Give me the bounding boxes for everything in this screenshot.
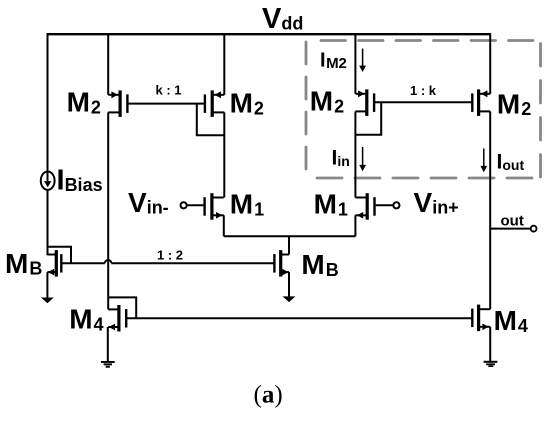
transistor M2 (left pair, right, diode-connected) — [204, 90, 225, 117]
svg-text:M4: M4 — [494, 305, 528, 336]
ground (earth style) under right M4 — [484, 361, 498, 367]
wire: tail joining both M1 sources — [224, 235, 356, 237]
transistor M2 (left pair, left) — [108, 90, 128, 117]
wire: tail down to MB (center) drain — [288, 236, 290, 254]
wire: M4 left source to ground — [107, 327, 109, 362]
wire: M4 left diode loop — [108, 297, 136, 318]
transistor M4 (right) — [471, 305, 490, 332]
annotation arrow Iin — [359, 147, 366, 171]
svg-text:IBias: IBias — [57, 165, 103, 197]
svg-text:M2: M2 — [310, 86, 344, 117]
wire: 1:k gate wire between right-pair gates — [374, 101, 471, 103]
annotation arrow Iout — [480, 149, 487, 173]
wire: M4 right source to ground — [489, 327, 491, 362]
wire: Vdd down to M2 (right pair right) source — [489, 33, 491, 94]
svg-text:1 : k: 1 : k — [410, 83, 437, 98]
transistor MB (center) — [273, 250, 289, 277]
svg-text:M2: M2 — [67, 87, 101, 118]
annotation arrow IM2 — [359, 49, 366, 73]
input terminal Vin- — [181, 202, 204, 208]
wire: M2 left-pair drain down to MB junction and M4 — [107, 112, 109, 309]
wire: M4 gate rail to right M4 — [126, 317, 471, 319]
transistor MB (left, diode-connected) — [47, 250, 62, 277]
svg-text:Iout: Iout — [497, 151, 525, 174]
wire: diode tie of left-pair right M2 (gate to drain loop) — [197, 104, 225, 136]
wire: k:1 gate wire between left-pair gates — [128, 103, 205, 105]
wire: M1 right source down to tail — [354, 215, 356, 236]
svg-text:Iin: Iin — [332, 147, 350, 170]
wire: left bias branch from Vdd down to IBias — [47, 33, 49, 170]
svg-text:M2: M2 — [497, 88, 531, 119]
wire: diode tie of right-pair left M2 (gate to drain loop) — [355, 102, 381, 135]
svg-text:MB: MB — [301, 249, 338, 280]
svg-text:Vin+: Vin+ — [414, 187, 459, 218]
svg-text:MB: MB — [5, 248, 42, 279]
wire: Vdd down to M2 (right pair left) source — [354, 33, 356, 94]
svg-text:M1: M1 — [230, 189, 264, 220]
ground (arrow style) under center MB — [283, 296, 296, 302]
input terminal Vin+ — [376, 202, 400, 208]
current source IBias — [41, 171, 55, 190]
svg-text:Vin-: Vin- — [128, 187, 169, 218]
svg-text:IM2: IM2 — [320, 50, 347, 73]
transistor M1 (right input) — [355, 193, 375, 220]
dashed box (current mirror highlight) — [306, 41, 541, 179]
wire: MB source to ground — [46, 272, 48, 298]
transistor M1 (left input) — [203, 193, 223, 220]
svg-text:(a): (a) — [254, 382, 283, 409]
wire: MB diode tie loop (top) — [48, 247, 72, 263]
ground (arrow style) under left MB — [41, 298, 54, 304]
transistor M2 (right pair, left, diode-connected) — [355, 89, 375, 116]
wire: out stub — [490, 228, 531, 230]
wire: M2 (left pair right) drain down to M1 drain — [223, 112, 225, 197]
svg-text:out: out — [501, 213, 524, 230]
wire: M1 left source down to tail — [223, 215, 225, 236]
wire: Vdd rail — [47, 33, 491, 35]
wire: IBias to MB drain — [47, 189, 49, 255]
transistor M4 (left, diode-connected) — [108, 305, 127, 332]
svg-text:1 : 2: 1 : 2 — [157, 248, 183, 263]
wire: 1:2 gate wire with hop over vertical — [62, 260, 275, 263]
wire: M2 (right pair right) drain down to M4 right drain — [489, 111, 491, 309]
transistor M2 (right pair, right) — [471, 89, 490, 116]
svg-text:k : 1: k : 1 — [156, 83, 182, 98]
svg-text:M1: M1 — [314, 189, 348, 220]
svg-text:M2: M2 — [230, 88, 264, 119]
svg-text:Vdd: Vdd — [262, 3, 303, 35]
output terminal out — [531, 226, 537, 232]
wire: M2 (right pair left) drain down to M1 right drain — [354, 111, 356, 197]
wire: MB center source to ground — [288, 272, 290, 297]
wire: Vdd down to M2 (left pair right) source — [223, 33, 225, 95]
wire: Vdd down to M2 (left pair left) source — [107, 33, 109, 95]
ground (earth style) under left M4 — [101, 361, 115, 368]
svg-text:M4: M4 — [69, 304, 103, 335]
